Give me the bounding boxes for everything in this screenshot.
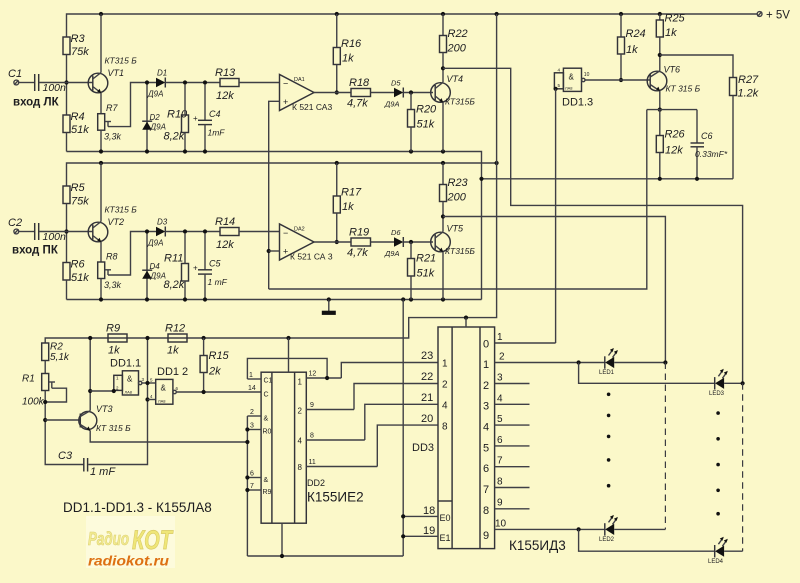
wire: DD1.2 bottom input stub	[148, 399, 156, 401]
wire: C2 to base node	[39, 231, 92, 233]
svg-text:&: &	[127, 375, 133, 384]
resistor R20	[410, 93, 412, 110]
svg-text:ЛА8: ЛА8	[125, 390, 133, 395]
wire: LED3 anode to column	[724, 382, 743, 384]
svg-text:1k: 1k	[342, 201, 354, 213]
node: D4 on rail3	[145, 297, 149, 301]
svg-text:7: 7	[483, 484, 489, 496]
node: C5 on rail3	[203, 297, 207, 301]
resistor R14	[220, 228, 239, 236]
node: C6 bottom	[695, 177, 699, 181]
svg-text:R5: R5	[71, 182, 86, 194]
svg-text:К 521 СА3: К 521 СА3	[292, 102, 332, 112]
gate DD1.3	[563, 68, 581, 91]
wire: ground drop from rail3 to bus	[402, 300, 404, 557]
pin DD3.19 E1	[403, 535, 438, 537]
wire: DD3 power stub	[465, 318, 467, 327]
node: LED3 on anode column	[741, 381, 745, 385]
svg-text:−: −	[283, 79, 288, 89]
node: R11 on rail3	[183, 297, 187, 301]
node: LED1 on anode column	[663, 360, 667, 364]
node: C4 top	[203, 80, 207, 84]
wire: VT5 collector to LED12 column	[443, 217, 665, 363]
svg-text:R3: R3	[71, 33, 86, 45]
svg-text:КТ 315 Б: КТ 315 Б	[96, 423, 131, 433]
node: R17 bottom on DA2 output	[335, 240, 339, 244]
pin DD3.6	[495, 445, 530, 447]
node: R22 on rail	[441, 12, 445, 16]
svg-text:19: 19	[423, 525, 435, 537]
svg-text:1: 1	[497, 332, 503, 343]
resistor R16	[336, 14, 338, 48]
wire: to DD1.1 inputs	[90, 390, 114, 392]
terminal C2 input	[14, 229, 19, 234]
svg-text:К 521 СА 3: К 521 СА 3	[290, 252, 333, 262]
svg-text:7: 7	[497, 456, 503, 467]
capacitor C6	[696, 110, 698, 143]
svg-text:51k: 51k	[417, 119, 435, 131]
wire: dashed anode column LED1-LED2	[664, 363, 666, 530]
svg-text:К155ИЕ2: К155ИЕ2	[307, 490, 364, 505]
wire: comparator reference line to R26/C6 node	[269, 110, 647, 289]
wire: DD2 power stub	[288, 338, 290, 372]
pin DD2.6	[247, 477, 261, 479]
wire: R13 to DA1 inverting input	[239, 82, 280, 84]
terminal C1 input	[14, 80, 19, 85]
wire: R14 to DA2 inverting input	[239, 231, 280, 233]
node: VT3 base junction	[43, 418, 47, 422]
svg-text:9: 9	[310, 402, 314, 409]
svg-text:C: C	[264, 392, 269, 399]
wire: Q0 riser to DD3 input 1	[341, 363, 438, 379]
wire: VT5 emitter to rail3	[442, 252, 444, 300]
svg-text:0.33mF*: 0.33mF*	[695, 149, 728, 159]
svg-text:КОТ: КОТ	[132, 525, 174, 555]
svg-text:R22: R22	[448, 28, 468, 40]
svg-text:10: 10	[495, 519, 507, 530]
wire: DA1 output to R18	[314, 92, 351, 94]
capacitor C4 (polar)	[204, 84, 206, 120]
svg-text:вход ЛК: вход ЛК	[13, 97, 60, 109]
node: VT1 collector on rail	[99, 12, 103, 16]
svg-text:DD2: DD2	[307, 478, 325, 488]
resistor R24	[620, 14, 622, 37]
watermark background	[86, 516, 175, 568]
svg-text:R13: R13	[215, 67, 236, 79]
svg-text:1k: 1k	[167, 345, 179, 357]
LED LED1	[604, 356, 606, 368]
svg-text:КТ315 Б: КТ315 Б	[105, 205, 138, 215]
svg-text:11: 11	[309, 459, 316, 466]
svg-text:R12: R12	[165, 323, 185, 335]
svg-text:R27: R27	[738, 74, 759, 86]
wire: VT3 base wire	[45, 419, 80, 421]
svg-text:&: &	[569, 73, 575, 82]
svg-text:R23: R23	[448, 177, 469, 189]
node: R15 top junction	[202, 336, 206, 340]
svg-text:Д9А: Д9А	[384, 249, 399, 258]
resistor R18	[351, 89, 371, 97]
resistor R26	[659, 110, 661, 136]
wire: terminal to C1	[19, 82, 34, 84]
transistor VT3 KT315B	[79, 412, 97, 430]
resistor R17	[336, 163, 338, 196]
pin DD2.3	[247, 429, 261, 431]
capacitor C3	[83, 458, 85, 472]
svg-text:КТ315Б: КТ315Б	[445, 246, 475, 256]
wire: pin1 riser to Q0 feedback	[247, 358, 327, 379]
svg-text:DA2: DA2	[294, 227, 305, 233]
node: R20 on rail1	[409, 149, 413, 153]
wire: VT1 collector up to rail	[100, 14, 102, 73]
svg-text:R8: R8	[106, 252, 118, 262]
node: DD1.1 input branch	[88, 389, 92, 393]
transistor VT4 KT315B	[431, 83, 451, 103]
svg-text:2: 2	[298, 407, 303, 416]
wire: C1 to base node	[39, 82, 92, 84]
wire: VT3 collector up to R9 node	[89, 338, 91, 411]
wire: R18 to D5	[371, 92, 395, 94]
LED LED2	[604, 523, 606, 535]
svg-text:22: 22	[421, 371, 433, 383]
svg-text:VT5: VT5	[447, 224, 465, 234]
svg-text:R11: R11	[164, 253, 183, 265]
svg-text:R19: R19	[349, 227, 369, 239]
svg-text:4,7k: 4,7k	[347, 98, 368, 110]
svg-text:Радио: Радио	[88, 529, 129, 549]
wire: R8 tap to D3 anode riser	[108, 232, 156, 276]
capacitor C2 100n	[34, 223, 36, 240]
svg-text:R16: R16	[341, 38, 362, 50]
svg-text:51k: 51k	[71, 124, 89, 136]
svg-text:8: 8	[298, 463, 303, 472]
svg-text:12k: 12k	[216, 90, 234, 102]
svg-text:R9: R9	[263, 489, 272, 496]
svg-text:8: 8	[310, 433, 314, 440]
node: DD1.2 bottom input junction	[145, 397, 149, 401]
svg-text:R24: R24	[626, 28, 646, 40]
node: DD1.1 input corner	[112, 389, 116, 393]
node: DD1.2 top input junction	[145, 381, 149, 385]
wire: +5V drop from top rail down to logic feed	[45, 14, 496, 343]
svg-text:E0: E0	[440, 513, 451, 523]
pin DD3.1 out0 to DD1.3	[495, 342, 556, 344]
node: R16 on rail	[335, 12, 339, 16]
svg-text:51k: 51k	[71, 272, 89, 284]
resistor R27	[730, 78, 737, 96]
svg-text:&: &	[161, 384, 167, 393]
svg-text:+: +	[283, 247, 288, 257]
pin DD2.8 Q2	[306, 439, 365, 441]
node: VT6 emitter node	[658, 108, 662, 112]
svg-text:C4: C4	[209, 109, 221, 119]
wire: +5V top rail	[67, 14, 758, 37]
terminal +5V	[757, 12, 762, 17]
svg-text:radiokot.ru: radiokot.ru	[88, 554, 170, 569]
wire: VT6 emitter to R26/C6	[659, 91, 661, 110]
node: +5V drop to row2	[495, 12, 499, 16]
svg-text:4: 4	[298, 437, 303, 446]
svg-text:1.2k: 1.2k	[738, 88, 759, 100]
IC DD3 K155ID3	[438, 327, 495, 549]
wire: Q2 riser to DD3 input 4	[365, 404, 438, 440]
node: LED2 row branch	[577, 527, 581, 531]
svg-text:3: 3	[497, 373, 503, 384]
capacitor C5 (polar)	[204, 233, 206, 270]
svg-text:D2: D2	[150, 113, 161, 122]
resistor R12	[168, 334, 187, 342]
svg-text:+ 5V: + 5V	[766, 10, 790, 22]
pin DD2.11 Q3	[306, 466, 377, 468]
svg-text:4: 4	[483, 422, 489, 434]
svg-text:1mF: 1mF	[208, 128, 226, 138]
resistor R8 (trimmer)	[98, 262, 105, 279]
diode D1	[156, 78, 165, 88]
svg-text:R6: R6	[71, 259, 86, 271]
node: R16 bottom on DA1 output	[335, 90, 339, 94]
svg-text:C2: C2	[8, 217, 22, 229]
svg-text:C1: C1	[264, 378, 273, 385]
diode D6	[394, 237, 403, 247]
pin DD3.5	[495, 424, 530, 426]
svg-text:6: 6	[497, 435, 503, 446]
svg-text:18: 18	[423, 505, 435, 517]
svg-text:12k: 12k	[216, 239, 234, 251]
resistor R22	[442, 14, 444, 36]
svg-text:КТ315Б: КТ315Б	[445, 97, 475, 107]
node: logic ground drop	[401, 297, 405, 301]
svg-text:R0: R0	[263, 429, 272, 436]
wire: DD1.2 output clock line to DD2 pin14	[176, 391, 261, 393]
svg-text:−: −	[283, 228, 288, 238]
svg-text:2: 2	[483, 380, 489, 392]
node: R10 on rail1	[183, 149, 187, 153]
svg-text:8: 8	[497, 477, 503, 488]
svg-text:VT1: VT1	[108, 68, 125, 78]
svg-text:E1: E1	[440, 533, 451, 543]
svg-text:0: 0	[483, 339, 489, 351]
wire: VT2 emitter down to R8	[100, 242, 102, 262]
svg-text:DD1.1: DD1.1	[110, 358, 141, 370]
svg-text:100k: 100k	[22, 397, 45, 408]
node: D2 on rail1	[145, 149, 149, 153]
svg-text:DD3: DD3	[412, 442, 434, 454]
svg-text:R17: R17	[341, 187, 362, 199]
svg-text:VT4: VT4	[447, 74, 464, 84]
svg-text:5: 5	[497, 414, 503, 425]
svg-text:2: 2	[442, 380, 448, 391]
gate DD1.2	[156, 379, 173, 404]
node: VT3 emitter joins column	[245, 440, 249, 444]
svg-text:200: 200	[447, 43, 467, 55]
svg-text:LED3: LED3	[709, 391, 725, 397]
resistor R3	[63, 37, 70, 55]
svg-text:Д9А: Д9А	[147, 90, 163, 99]
wire: VT4 collector to LED34 column	[443, 68, 743, 383]
resistor R1 (potentiometer)	[42, 374, 49, 391]
pin DD2.1 C1	[247, 378, 261, 380]
svg-text:+: +	[193, 114, 198, 123]
node: gnd wire at row1 drop	[479, 177, 483, 181]
node: VT6 collector	[658, 53, 662, 57]
pin DD3.18 E0	[403, 515, 438, 517]
node: R24 on rail	[619, 12, 623, 16]
svg-text:R14: R14	[215, 216, 235, 228]
wire: DD1.3 output to VT6 base	[585, 79, 650, 81]
node: R26 bottom	[658, 177, 662, 181]
node: R9/R12 junction	[145, 336, 149, 340]
node: R11 top	[183, 229, 187, 233]
pin DD3.8	[495, 487, 530, 489]
svg-text:1 mF: 1 mF	[90, 466, 116, 478]
node: VT5 collector	[441, 214, 445, 218]
svg-text:DD1.1-DD1.3 - К155ЛА8: DD1.1-DD1.3 - К155ЛА8	[63, 500, 212, 515]
resistor R6	[63, 263, 70, 281]
svg-text:R4: R4	[71, 111, 85, 123]
wire: +5V rail2 row	[67, 163, 497, 186]
node: DD3 power tap	[464, 316, 468, 320]
svg-text:20: 20	[421, 413, 433, 425]
svg-text:LED2: LED2	[599, 537, 615, 543]
svg-text:КТ315 Б: КТ315 Б	[105, 56, 138, 66]
node: R17 on rail2	[335, 161, 339, 165]
svg-text:7: 7	[250, 483, 254, 490]
node: R24 bottom on DD1.3 output line	[619, 78, 623, 82]
svg-text:1: 1	[249, 372, 253, 379]
node: VT2 base node	[64, 229, 68, 233]
svg-text:DA1: DA1	[294, 77, 305, 83]
wire: DD2 ground stub	[281, 523, 283, 556]
pin DD2.7	[247, 489, 261, 491]
node: R10 top	[183, 80, 187, 84]
svg-text:LED4: LED4	[708, 559, 724, 565]
diode D4 (vertical)	[146, 232, 148, 300]
svg-text:4: 4	[442, 401, 448, 412]
IC DD2 K155IE2	[261, 372, 306, 523]
svg-text:+: +	[283, 97, 288, 107]
wire: DA2 noninverting input stub	[269, 250, 280, 252]
svg-text:VT6: VT6	[664, 65, 681, 75]
node: ground symbol stem	[327, 297, 331, 301]
pin DD2.12 Q0	[306, 377, 341, 379]
wire: Q1 riser to DD3 input 2	[354, 384, 438, 410]
node: R15 bottom on clock line	[202, 390, 206, 394]
svg-text:100n: 100n	[43, 231, 67, 243]
node: DA2 + joins vertical	[267, 249, 271, 253]
resistor R4	[63, 115, 70, 133]
wire: D3 cathode to R14	[165, 231, 220, 233]
svg-text:C5: C5	[209, 259, 221, 269]
svg-text:C3: C3	[58, 450, 73, 462]
gate DD1.1	[122, 371, 138, 395]
svg-text:5,1k: 5,1k	[50, 352, 70, 363]
node: LED1 row branch	[577, 360, 581, 364]
resistor R9	[108, 334, 127, 342]
node: R21 on rail3	[409, 297, 413, 301]
svg-text:6: 6	[250, 471, 254, 478]
svg-text:9: 9	[483, 530, 489, 542]
svg-text:5: 5	[483, 443, 489, 455]
wire: R8 bottom to rail3	[100, 279, 102, 300]
svg-text:2k: 2k	[208, 366, 221, 378]
node: VT2 collector on rail2	[99, 161, 103, 165]
pin DD2.9 Q1	[306, 409, 354, 411]
svg-text:4: 4	[497, 394, 503, 405]
svg-text:Д9А: Д9А	[147, 239, 163, 248]
capacitor C1 100n	[34, 74, 36, 91]
svg-text:12: 12	[309, 371, 317, 378]
svg-text:VT2: VT2	[108, 217, 125, 227]
node: R7 on rail1	[99, 149, 103, 153]
transistor VT5 KT315B	[431, 232, 451, 252]
pin DD3.4	[495, 403, 530, 405]
svg-text:R20: R20	[416, 104, 437, 116]
svg-text:6: 6	[483, 463, 489, 475]
svg-text:D4: D4	[150, 262, 161, 271]
node: VT1 base node	[64, 80, 68, 84]
svg-text:D5: D5	[391, 79, 401, 88]
wire: R0 input column	[246, 416, 248, 556]
svg-text:3,3k: 3,3k	[104, 280, 122, 290]
svg-text:R1: R1	[22, 374, 35, 385]
node: wiper junction	[43, 400, 47, 404]
svg-text:К155ИД3: К155ИД3	[509, 538, 566, 553]
node: DD1.3 input bridge	[554, 87, 558, 91]
svg-text:3: 3	[483, 401, 489, 413]
svg-text:23: 23	[421, 350, 433, 362]
wire: DD1.3 input down to DD3 out0	[555, 89, 557, 343]
node: DD2 ground stub on bus	[280, 554, 284, 558]
transistor VT1 KT315B	[88, 73, 108, 93]
svg-text:R9: R9	[106, 323, 120, 335]
svg-text:D6: D6	[391, 228, 401, 237]
svg-text:VT3: VT3	[96, 404, 113, 414]
wire: out1 to LED1	[495, 362, 605, 364]
wire: LED2 anode to column	[614, 528, 665, 530]
wire: DA2 output to R19	[314, 241, 351, 243]
wire: R1 wiper loop	[45, 388, 66, 402]
wire: logic ground bus bottom	[247, 555, 403, 557]
svg-text:1: 1	[298, 378, 303, 387]
wire: R26/C6 top bar	[647, 109, 697, 111]
svg-text:3: 3	[250, 423, 254, 430]
svg-text:10: 10	[584, 72, 590, 78]
wire: R7 bottom to ground rail	[100, 130, 102, 151]
wire: D6 to VT5 base	[403, 241, 433, 243]
resistor R10	[182, 115, 189, 133]
wire: DA1 noninverting input	[269, 101, 280, 289]
svg-text:21: 21	[421, 392, 433, 404]
transistor VT2 KT315B	[88, 222, 108, 242]
node: R20 top / base	[409, 90, 413, 94]
op-amp DA2 K521SA3	[280, 224, 315, 260]
svg-text:8: 8	[442, 422, 448, 433]
resistor R11	[182, 264, 189, 282]
node: C5 top	[203, 229, 207, 233]
svg-text:&: &	[264, 416, 269, 423]
svg-text:2: 2	[499, 352, 505, 363]
op-amp DA1 K521SA3	[280, 75, 315, 111]
svg-text:12k: 12k	[665, 145, 683, 157]
svg-text:8: 8	[483, 505, 489, 517]
node: R21 top / base	[409, 240, 413, 244]
wire: LED4 anode to column	[724, 550, 743, 552]
svg-text:8,2k: 8,2k	[164, 131, 185, 143]
svg-text:&: &	[264, 477, 269, 484]
wire: R3 bottom to base node to R4	[66, 55, 68, 116]
svg-text:1: 1	[442, 359, 448, 370]
resistor R21	[410, 242, 412, 259]
